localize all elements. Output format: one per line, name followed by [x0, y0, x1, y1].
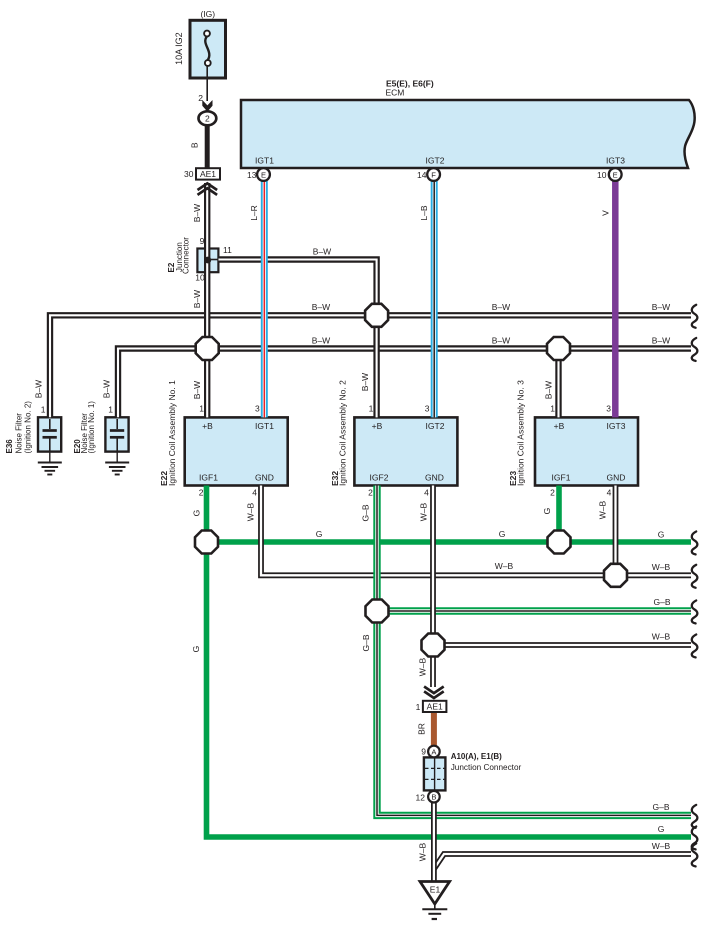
- ground E1 triangle: [420, 882, 450, 905]
- svg-text:W–B: W–B: [419, 502, 429, 521]
- junction connector pin 12 circle B: [428, 791, 440, 803]
- svg-text:3: 3: [606, 404, 611, 414]
- svg-text:2: 2: [550, 488, 555, 498]
- svg-text:1: 1: [416, 702, 421, 712]
- ground E1 bars: [422, 904, 447, 919]
- svg-text:W–B: W–B: [418, 657, 428, 676]
- svg-text:Noise Filter: Noise Filter: [15, 413, 24, 454]
- svg-text:GND: GND: [255, 473, 274, 483]
- svg-text:G: G: [316, 529, 323, 539]
- svg-text:G: G: [658, 530, 665, 540]
- wire W-B bottom horizontal with fork to edge: [434, 854, 691, 869]
- svg-text:E: E: [261, 170, 266, 179]
- noise filter E36 ground: [38, 452, 62, 475]
- svg-text:13: 13: [247, 170, 257, 180]
- wire B-W from E2 pin 11 to coil2 +B pin 1: [218, 260, 376, 418]
- svg-text:B–W: B–W: [492, 336, 510, 346]
- svg-text:2: 2: [198, 93, 203, 103]
- svg-text:B–W: B–W: [313, 247, 331, 257]
- svg-text:14: 14: [417, 170, 427, 180]
- ECM pin 13 circle E: [257, 168, 270, 181]
- wire G-B from coil2 IGF2 down and right to edge: [377, 486, 691, 816]
- wire W-B from junction connector B to ground E1: [431, 802, 437, 881]
- AE1 box top (pin 30): [196, 168, 220, 179]
- svg-text:W–B: W–B: [652, 562, 671, 572]
- svg-text:2: 2: [199, 488, 204, 498]
- svg-text:AE1: AE1: [200, 169, 216, 179]
- svg-text:B–W: B–W: [192, 290, 202, 308]
- fuse element symbol: [204, 31, 211, 66]
- svg-text:B–W: B–W: [652, 302, 670, 312]
- svg-text:Ignition Coil Assembly No. 2: Ignition Coil Assembly No. 2: [338, 380, 348, 486]
- svg-text:W–B: W–B: [652, 841, 671, 851]
- svg-text:IGT3: IGT3: [607, 421, 626, 431]
- svg-text:IGT3: IGT3: [606, 156, 625, 166]
- svg-text:W–B: W–B: [652, 632, 671, 642]
- squiggle G-B bottom: [692, 805, 698, 828]
- svg-text:+B: +B: [372, 421, 383, 431]
- junction connector E2 box: [197, 249, 218, 273]
- squiggle G line: [692, 532, 698, 555]
- ECM pin 10 circle E: [609, 168, 622, 181]
- svg-text:L–B: L–B: [419, 205, 429, 220]
- svg-text:9: 9: [421, 747, 426, 757]
- svg-text:1: 1: [369, 404, 374, 414]
- svg-text:11: 11: [223, 245, 232, 255]
- wire W-B from coil1 GND right to edge: [261, 486, 691, 576]
- svg-text:B–W: B–W: [102, 380, 112, 398]
- svg-text:3: 3: [425, 404, 430, 414]
- svg-text:10: 10: [597, 170, 607, 180]
- svg-text:Junction Connector: Junction Connector: [451, 763, 522, 772]
- squiggle W-B line: [692, 565, 698, 588]
- svg-text:AE1: AE1: [427, 702, 443, 712]
- ignition coil assembly No.3 E23 box: [535, 417, 638, 485]
- wire B-W main vertical (AE1 to coil1 +B pin 1): [204, 183, 210, 417]
- svg-text:V: V: [601, 210, 611, 216]
- AE1 box bottom (pin 1): [423, 701, 447, 712]
- svg-text:E1: E1: [430, 885, 441, 895]
- fuse 10A IG2 (IG) box: [190, 20, 226, 78]
- svg-text:BR: BR: [417, 723, 427, 735]
- noise filter E20 capacitor: [110, 419, 124, 451]
- wire BR from AE1 to junction connector A: [431, 712, 437, 747]
- svg-text:+B: +B: [202, 421, 213, 431]
- junction octagon B-W line2 x207: [196, 337, 219, 360]
- junction octagon W-B line2 x433: [422, 634, 445, 657]
- junction connector pin 9 circle A: [428, 746, 440, 758]
- noise filter E20 box: [105, 417, 128, 451]
- wire V from ECM IGT3 to coil3 IGT3: [612, 181, 619, 417]
- wire W-B coil2 GND down to arrow: [430, 486, 436, 688]
- svg-text:B: B: [189, 142, 199, 148]
- svg-text:B–W: B–W: [192, 381, 202, 399]
- noise filter E36 box: [38, 417, 61, 451]
- svg-text:G: G: [542, 508, 552, 515]
- wire B from connector 2 to AE1: [205, 124, 210, 169]
- squiggle B-W line1: [692, 305, 698, 328]
- wire B-W horizontal line 1 (to noise filter E36): [50, 315, 691, 417]
- wire L-B from ECM IGT2 to coil2 IGT2: [431, 181, 438, 417]
- svg-text:G: G: [499, 529, 506, 539]
- junction octagon G-B line x377: [366, 600, 389, 623]
- wire L-R from ECM IGT1 to coil1 IGT1: [261, 181, 268, 417]
- svg-text:IGT1: IGT1: [255, 421, 274, 431]
- svg-text:B–W: B–W: [192, 204, 202, 222]
- svg-text:Ignition Coil Assembly No. 3: Ignition Coil Assembly No. 3: [516, 380, 526, 486]
- arrow down to connector 2: [202, 100, 212, 112]
- junction octagon B-W line2 x558: [547, 337, 570, 360]
- svg-text:G–B: G–B: [652, 802, 669, 812]
- double chevron up below AE1: [198, 183, 218, 195]
- svg-text:(IG): (IG): [200, 9, 215, 19]
- svg-text:Connector: Connector: [182, 237, 191, 274]
- svg-text:IGT1: IGT1: [255, 156, 274, 166]
- svg-text:1: 1: [550, 404, 555, 414]
- svg-text:IGF1: IGF1: [552, 473, 571, 483]
- junction octagon G line x206: [195, 531, 218, 554]
- svg-text:4: 4: [607, 488, 612, 498]
- svg-text:IGT2: IGT2: [426, 421, 445, 431]
- wire B-W horizontal line 2 (to noise filter E20): [118, 349, 691, 418]
- svg-text:G–B: G–B: [653, 597, 670, 607]
- svg-text:L–R: L–R: [249, 205, 259, 221]
- svg-text:2: 2: [368, 488, 373, 498]
- svg-text:4: 4: [252, 488, 257, 498]
- svg-text:B–W: B–W: [312, 336, 330, 346]
- svg-text:E36: E36: [5, 439, 14, 454]
- connector ellipse 2: [199, 111, 217, 125]
- svg-text:W–B: W–B: [598, 500, 608, 519]
- squiggle W-B line2: [692, 635, 698, 658]
- squiggle G-B line: [692, 601, 698, 624]
- svg-text:B–W: B–W: [652, 336, 670, 346]
- noise filter E20 ground: [105, 452, 129, 475]
- wire G vertical from coil1 IGF1 down and right to edge: [207, 486, 692, 838]
- svg-text:1: 1: [41, 405, 46, 415]
- noise filter E36 capacitor: [43, 419, 57, 451]
- wire B-W from junction to coil3 +B pin 1: [555, 349, 561, 418]
- svg-text:30: 30: [184, 169, 194, 179]
- svg-text:W–B: W–B: [495, 561, 514, 571]
- svg-text:B–W: B–W: [360, 373, 370, 391]
- svg-text:1: 1: [108, 405, 113, 415]
- ECM E5(E),E6(F) box: [241, 100, 695, 168]
- svg-text:GND: GND: [607, 473, 626, 483]
- svg-text:E: E: [613, 170, 618, 179]
- svg-text:10: 10: [195, 273, 205, 283]
- svg-text:B–W: B–W: [312, 302, 330, 312]
- squiggle W-B bottom: [692, 844, 698, 867]
- svg-text:4: 4: [424, 488, 429, 498]
- svg-text:2: 2: [205, 114, 210, 124]
- svg-text:W–B: W–B: [246, 502, 256, 521]
- svg-text:G–B: G–B: [361, 634, 371, 651]
- wire thin from fuse to arrow: [206, 66, 208, 101]
- svg-text:B: B: [431, 793, 436, 802]
- ignition coil assembly No.2 E32 box: [354, 417, 457, 485]
- svg-text:3: 3: [255, 404, 260, 414]
- double chevron down above AE1 bottom: [424, 687, 444, 699]
- svg-text:12: 12: [416, 792, 426, 802]
- junction octagon G line x559: [548, 531, 571, 554]
- ignition coil assembly No.1 E22 box: [185, 417, 288, 485]
- svg-text:G: G: [192, 510, 202, 517]
- wire W-B horizontal line 2 from junction to edge: [433, 642, 691, 648]
- svg-text:9: 9: [200, 236, 205, 246]
- svg-text:IGF2: IGF2: [370, 473, 389, 483]
- wire G-B horizontal branch at junction: [377, 607, 691, 614]
- svg-text:A10(A), E1(B): A10(A), E1(B): [451, 752, 502, 761]
- svg-text:ECM: ECM: [386, 88, 405, 98]
- svg-text:F: F: [431, 170, 436, 179]
- junction connector A10(A),E1(B) box: [424, 757, 446, 790]
- squiggle B-W line2: [692, 338, 698, 361]
- svg-text:G: G: [658, 824, 665, 834]
- svg-text:(Ignition No. 2): (Ignition No. 2): [24, 401, 33, 454]
- svg-text:IGF1: IGF1: [199, 473, 218, 483]
- svg-text:B–W: B–W: [34, 380, 44, 398]
- svg-text:+B: +B: [554, 421, 565, 431]
- svg-text:G–B: G–B: [361, 504, 371, 521]
- junction octagon W-B line x615: [604, 564, 627, 587]
- svg-text:10A IG2: 10A IG2: [174, 32, 184, 65]
- wire W-B coil3 GND down to junction: [613, 486, 619, 576]
- wire G horizontal (IGF line): [207, 539, 692, 545]
- svg-text:B–W: B–W: [544, 381, 554, 399]
- ECM pin 14 circle F: [427, 168, 440, 181]
- E2 junction dot and pin 11 stub: [204, 257, 218, 264]
- svg-text:W–B: W–B: [418, 842, 428, 861]
- wire G vertical coil3 IGF1 to junction: [556, 486, 562, 543]
- svg-text:Ignition Coil Assembly No. 1: Ignition Coil Assembly No. 1: [167, 380, 177, 486]
- svg-text:1: 1: [199, 404, 204, 414]
- svg-text:B–W: B–W: [492, 302, 510, 312]
- svg-text:IGT2: IGT2: [426, 156, 445, 166]
- svg-text:GND: GND: [425, 473, 444, 483]
- svg-text:G: G: [191, 646, 201, 653]
- svg-text:(Ignition No. 1): (Ignition No. 1): [87, 401, 96, 454]
- junction octagon B-W line1 x376: [365, 304, 388, 327]
- squiggle G bottom: [692, 827, 698, 850]
